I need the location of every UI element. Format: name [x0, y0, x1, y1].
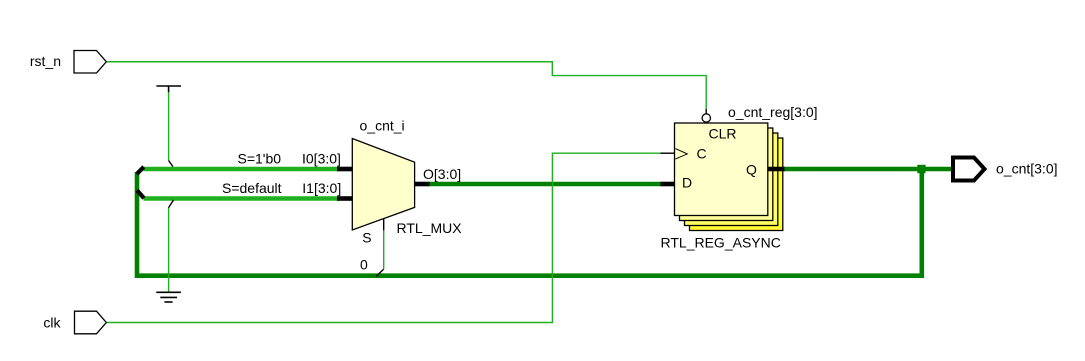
svg-text:C: C	[697, 146, 707, 162]
svg-text:CLR: CLR	[708, 125, 736, 141]
svg-text:0: 0	[360, 257, 368, 273]
svg-text:S: S	[362, 229, 371, 245]
svg-text:D: D	[682, 175, 692, 191]
svg-text:I1[3:0]: I1[3:0]	[302, 180, 341, 196]
svg-text:S=default: S=default	[222, 180, 282, 196]
svg-text:o_cnt_reg[3:0]: o_cnt_reg[3:0]	[728, 104, 818, 120]
svg-text:RTL_REG_ASYNC: RTL_REG_ASYNC	[661, 234, 781, 250]
svg-text:O[3:0]: O[3:0]	[423, 166, 461, 182]
svg-text:o_cnt_i: o_cnt_i	[360, 118, 405, 134]
svg-text:Q: Q	[746, 161, 757, 177]
svg-text:clk: clk	[43, 314, 61, 330]
svg-text:RTL_MUX: RTL_MUX	[397, 220, 463, 236]
svg-text:I0[3:0]: I0[3:0]	[302, 151, 341, 167]
svg-text:S=1'b0: S=1'b0	[238, 151, 282, 167]
svg-text:o_cnt[3:0]: o_cnt[3:0]	[996, 160, 1058, 176]
svg-text:rst_n: rst_n	[30, 53, 61, 69]
